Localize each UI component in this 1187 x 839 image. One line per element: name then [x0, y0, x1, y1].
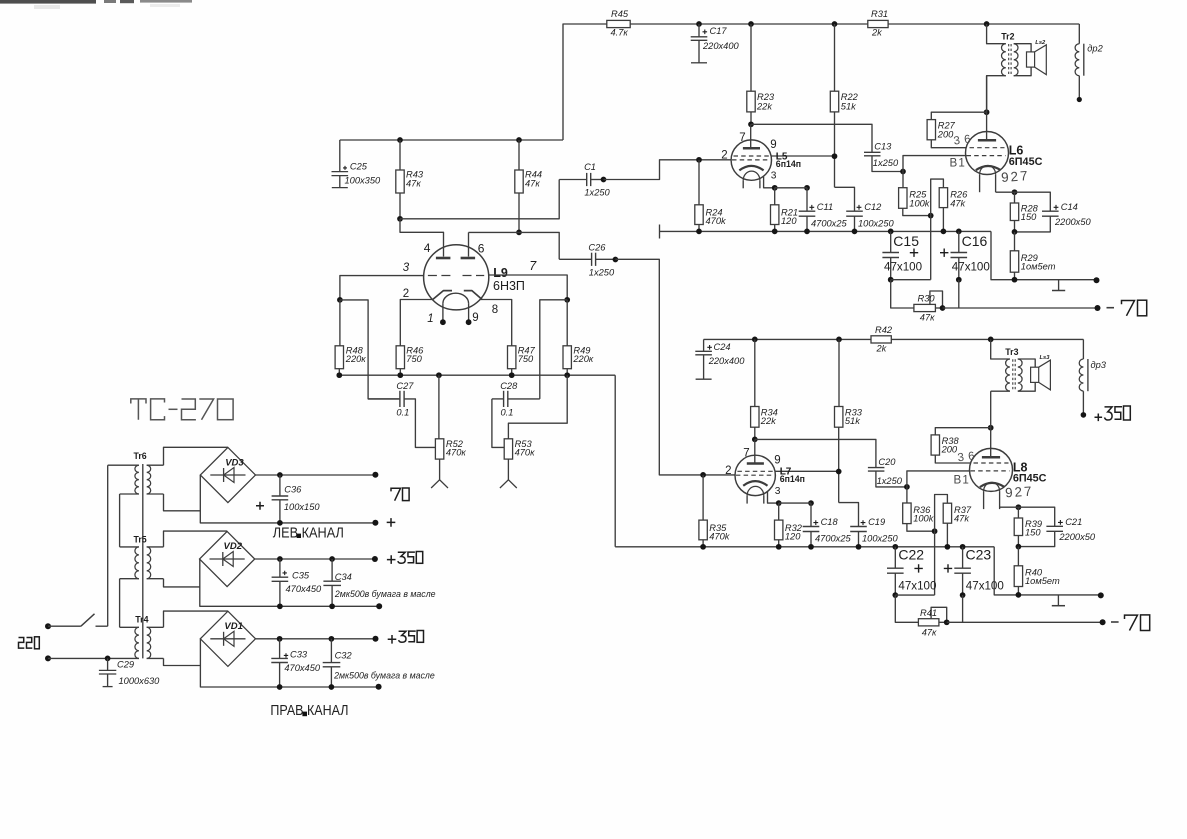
capacitor C12: [835, 187, 895, 231]
node L9 filament pin 9: [466, 319, 472, 325]
wire: +350 rail (lower channel) y=339.4: [704, 338, 1084, 340]
svg-text:Tr5: Tr5: [134, 534, 147, 544]
choke dp2: [1075, 24, 1104, 99]
svg-text:В1: В1: [954, 473, 971, 486]
svg-text:4: 4: [424, 241, 431, 255]
wire: bias node down to C15 node: [930, 216, 932, 280]
svg-text:22k: 22k: [756, 101, 773, 111]
node plus terminal (left ch): [372, 520, 378, 526]
resistor R25: [899, 172, 931, 216]
node rail/R23 junction: [748, 21, 754, 27]
label + (left ch): [387, 518, 396, 527]
wire: R37 top hook: [935, 495, 948, 532]
capacitor C29: [99, 658, 160, 686]
node C35 top: [277, 556, 283, 562]
wire: -70 line (lower): [947, 621, 1103, 623]
rectifier bridge VD3: [200, 447, 255, 502]
svg-text:C19: C19: [868, 517, 885, 527]
svg-text:220x400: 220x400: [708, 356, 746, 366]
wire: upper bus y=231.4: [660, 225, 992, 239]
node R44 bottom: [516, 230, 522, 236]
node C29 junction: [105, 656, 111, 662]
svg-text:470x450: 470x450: [284, 663, 321, 673]
svg-text:C20: C20: [878, 457, 896, 467]
resistor R34: [751, 339, 778, 439]
svg-text:C36: C36: [284, 485, 302, 495]
wire: bias node down to C22 node: [934, 531, 936, 595]
node VD2 minus terminal: [376, 603, 382, 609]
node -70 terminal (upper): [1095, 305, 1101, 311]
svg-text:C18: C18: [821, 517, 839, 527]
node C36 bottom: [277, 520, 283, 526]
wire: C15 node link to bias vertical: [891, 279, 931, 281]
node +350 terminal (VD1): [373, 636, 379, 642]
node C13/R25/grid junction: [900, 169, 906, 175]
svg-text:Tr4: Tr4: [135, 615, 148, 625]
capacitor C35: [272, 559, 322, 606]
resistor R48: [335, 300, 366, 375]
node C1 output: [601, 177, 607, 183]
ground (upper channel): [1058, 280, 1060, 291]
node R22/pin9 junction: [832, 153, 838, 159]
svg-text:470к: 470к: [446, 447, 467, 457]
svg-text:R42: R42: [875, 325, 893, 335]
rectifier bridge VD1: [200, 611, 255, 666]
svg-text:220x400: 220x400: [702, 41, 740, 51]
node R41 output: [944, 619, 950, 625]
node R39/R40/C21 junction: [1016, 544, 1022, 550]
svg-text:8: 8: [492, 304, 498, 316]
watermark remnant strip: [0, 0, 192, 9]
svg-text:150: 150: [1021, 212, 1037, 222]
svg-text:C35: C35: [292, 570, 310, 580]
capacitor C32: [323, 639, 435, 687]
wire: L8 grid jog: [907, 471, 970, 487]
node C26 output: [613, 257, 619, 263]
svg-text:47k: 47k: [950, 199, 966, 209]
node bus/R47: [509, 372, 515, 378]
node bus/R52: [436, 372, 442, 378]
node rail/Tr3 junction: [988, 337, 994, 343]
svg-text:C13: C13: [874, 141, 892, 151]
choke dp3: [1079, 339, 1107, 414]
resistor R44: [515, 140, 542, 232]
capacitor C11: [799, 188, 848, 232]
node rail/R33 junction: [836, 337, 842, 343]
wire: pin7 to R49: [489, 275, 568, 300]
wire: Tr6 sec top to VD3: [164, 447, 228, 465]
capacitor C36: [256, 475, 320, 523]
svg-text:6П45С: 6П45С: [1009, 156, 1043, 168]
tube L7 6п14п: [725, 439, 839, 503]
node bus/R26: [941, 229, 947, 235]
svg-text:100x350: 100x350: [345, 175, 382, 185]
node C15 bottom: [888, 277, 894, 283]
wire: VD2 minus rail: [200, 559, 379, 606]
node R30 output: [940, 305, 946, 311]
svg-text:ПРАВ.КАНАЛ: ПРАВ.КАНАЛ: [270, 702, 348, 719]
svg-text:47к: 47к: [406, 179, 421, 189]
node bus/R24: [696, 229, 702, 235]
svg-text:120: 120: [785, 532, 801, 542]
svg-text:100x250: 100x250: [858, 218, 895, 228]
resistor R26: [939, 188, 968, 232]
wire: VD2 plus line y=559: [255, 558, 375, 560]
node pin7/R49/C28 junction: [564, 297, 570, 303]
label +350 (VD1): [388, 631, 424, 644]
svg-text:927: 927: [1005, 483, 1034, 500]
node bus/R49: [564, 372, 570, 378]
svg-text:3 6: 3 6: [957, 449, 976, 464]
svg-text:750: 750: [406, 354, 422, 364]
capacitor C18: [803, 503, 852, 547]
svg-text:470x450: 470x450: [286, 584, 323, 594]
resistor R45: [607, 9, 630, 38]
node bus/C16: [956, 229, 962, 235]
wire: L9 cathode bus y=375.2: [339, 374, 615, 376]
resistor R41: [918, 607, 946, 637]
svg-text:R31: R31: [871, 9, 888, 19]
svg-text:7: 7: [739, 132, 745, 144]
svg-text:C16: C16: [962, 233, 988, 249]
capacitor C33: [271, 639, 321, 687]
wire: plate feed line y=140: [340, 139, 563, 141]
svg-text:3: 3: [771, 171, 777, 182]
wire: L6 grid jog: [903, 156, 966, 172]
node bus/R37: [945, 544, 951, 550]
svg-text:6п14п: 6п14п: [776, 159, 801, 169]
svg-text:9: 9: [770, 139, 776, 151]
node C22 bottom: [892, 592, 898, 598]
svg-text:100k: 100k: [913, 514, 935, 524]
wire: L7 plate to C20: [755, 439, 876, 467]
wire: C1 to L5 grid: [604, 160, 732, 180]
node bus/R32: [776, 544, 782, 550]
wire: VD3 minus rail: [200, 475, 375, 523]
node C32 bottom: [329, 684, 335, 690]
svg-text:C34: C34: [335, 572, 352, 582]
svg-text:др2: др2: [1087, 44, 1103, 54]
wire: pin6 drop: [468, 232, 470, 256]
wire: pin4 jog: [400, 219, 444, 257]
label +350 (dp3): [1095, 406, 1131, 421]
resistor R21: [771, 188, 799, 232]
capacitor C20: [868, 457, 907, 487]
svg-text:3: 3: [775, 486, 781, 497]
node R29 bottom: [1012, 277, 1018, 283]
node lower ground line end: [1098, 592, 1104, 598]
svg-text:ЛЕВ.КАНАЛ: ЛЕВ.КАНАЛ: [273, 524, 344, 541]
wire: pin3 to R48: [340, 276, 424, 300]
wire: Tr6 sec bottom to VD3: [164, 494, 201, 511]
svg-text:1x250: 1x250: [589, 267, 615, 277]
svg-text:2k: 2k: [876, 343, 888, 353]
node L7 cathode/R32: [776, 500, 782, 506]
node dp2 terminal: [1077, 97, 1082, 102]
node bus/R46: [397, 372, 403, 378]
resistor R24: [695, 160, 727, 232]
node R35 top: [700, 472, 706, 478]
wire: pin8 to R47: [480, 300, 512, 346]
capacitor C15: [882, 231, 922, 279]
node dp3 terminal / +350: [1081, 412, 1087, 418]
node Tr2/L6 plate junction: [984, 109, 990, 115]
wire: bus down to lower bus: [614, 375, 616, 547]
wire: cathode node to C18: [779, 502, 811, 504]
wire: Tr4 sec top to VD1: [164, 611, 228, 627]
resistor R32: [775, 503, 803, 547]
resistor R33: [835, 339, 863, 502]
svg-text:47к: 47к: [920, 312, 935, 322]
svg-text:0.1: 0.1: [501, 407, 514, 417]
tube L5 6п14п: [721, 124, 834, 188]
svg-text:C26: C26: [588, 243, 606, 253]
svg-text:C11: C11: [817, 202, 833, 212]
wire: upper ground line y=279.7: [991, 231, 1097, 279]
node L9 filament pin 1: [440, 319, 446, 325]
wire: pin6 line y=232.4: [469, 232, 560, 259]
resistor R49: [563, 300, 594, 375]
svg-text:200: 200: [941, 445, 958, 455]
svg-text:47x100: 47x100: [952, 260, 990, 273]
transformer Tr5: [120, 534, 164, 578]
node bus/R35: [700, 544, 706, 550]
wire: VD1 plus line y=638.8: [256, 638, 376, 640]
svg-text:9: 9: [774, 455, 780, 467]
node C33 bottom: [277, 684, 283, 690]
label -70 (lower): [1111, 615, 1150, 631]
svg-text:3: 3: [403, 262, 410, 274]
node bus/C19: [856, 544, 862, 550]
resistor R47: [508, 345, 536, 375]
svg-text:1ом5ет: 1ом5ет: [1021, 261, 1056, 271]
resistor R46: [396, 345, 424, 375]
resistor R28: [1010, 192, 1038, 232]
resistor R42: [871, 325, 893, 353]
node bus/C12: [852, 229, 858, 235]
node R24 top: [696, 157, 702, 163]
resistor R43: [396, 140, 424, 219]
svg-text:9: 9: [472, 312, 478, 324]
node bus/R48: [336, 372, 342, 378]
node R23/plate junction: [748, 121, 754, 127]
node bus/R21: [772, 229, 778, 235]
svg-text:47x100: 47x100: [898, 579, 936, 592]
svg-text:150: 150: [1025, 528, 1041, 538]
rectifier bridge VD2: [200, 531, 255, 586]
capacitor C26: [559, 243, 615, 278]
transformer Tr2: [987, 24, 1018, 112]
svg-text:R41: R41: [920, 608, 937, 618]
svg-text:1000x630: 1000x630: [119, 676, 161, 686]
node rail/R45-C17 junction: [696, 21, 702, 27]
svg-text:C29: C29: [117, 659, 134, 669]
svg-text:220к: 220к: [345, 354, 367, 364]
label 70 (VD3 out): [391, 488, 409, 501]
wire: C26 to L7 grid: [615, 259, 735, 475]
svg-text:VD2: VD2: [224, 541, 243, 552]
svg-text:C27: C27: [396, 381, 414, 391]
node upper ground line end: [1094, 277, 1100, 283]
node R43 top: [397, 137, 403, 143]
wire: L5 plate to C13: [751, 124, 872, 152]
svg-text:200: 200: [937, 130, 954, 140]
svg-text:1x250: 1x250: [584, 188, 610, 198]
svg-text:7: 7: [743, 447, 749, 459]
node VD1 minus terminal: [376, 684, 382, 690]
wire: Tr4 sec bottom to VD1: [164, 658, 201, 665]
svg-text:2мк500в бумага в масле: 2мк500в бумага в масле: [333, 670, 435, 680]
svg-text:1x250: 1x250: [873, 158, 899, 168]
tube L9 6Н3П: [403, 241, 538, 325]
resistor R39: [1014, 507, 1042, 546]
svg-text:R30: R30: [918, 294, 936, 304]
capacitor C27: [368, 381, 435, 447]
wire: pin7 node to C28: [540, 300, 567, 399]
chassis symbol below R52: [439, 459, 441, 480]
svg-text:4700x25: 4700x25: [815, 534, 852, 544]
node bus/C18: [808, 544, 814, 550]
svg-text:6п14п: 6п14п: [780, 474, 805, 484]
svg-text:1: 1: [427, 313, 433, 325]
svg-text:C21: C21: [1065, 517, 1082, 527]
resistor R23: [747, 24, 775, 124]
resistor R37: [943, 503, 972, 547]
node mains terminal bottom: [45, 655, 51, 661]
capacitor C17: [691, 24, 740, 63]
svg-text:220к: 220к: [572, 354, 594, 364]
wire: R43 bottom line y=218.8: [400, 180, 559, 219]
node C20/R36/grid junction: [904, 484, 910, 490]
wire: lower ground line y=594.9: [994, 547, 1101, 595]
svg-text:R45: R45: [611, 9, 629, 19]
svg-text:2: 2: [725, 465, 731, 477]
wire: pin3 node to C27: [340, 300, 399, 399]
transformer Tr6: [108, 451, 164, 494]
svg-text:C32: C32: [335, 651, 353, 661]
node bus/C15: [888, 229, 894, 235]
svg-text:470k: 470k: [709, 532, 731, 542]
svg-text:C28: C28: [500, 381, 518, 391]
capacitor C13: [864, 141, 903, 171]
svg-text:L9: L9: [493, 266, 508, 280]
wire: mains vertical x=107.7: [107, 465, 109, 626]
resistor R36: [903, 487, 935, 531]
svg-text:Tr3: Tr3: [1005, 347, 1018, 357]
wire: transformer core line: [142, 464, 144, 658]
node mains terminal top: [45, 623, 51, 629]
svg-text:2200x50: 2200x50: [1058, 532, 1096, 542]
svg-text:0.1: 0.1: [396, 407, 409, 417]
wire: mains bottom line: [48, 657, 139, 659]
chassis symbol below R53: [507, 459, 509, 480]
svg-text:7: 7: [529, 259, 537, 273]
svg-text:Tr2: Tr2: [1001, 32, 1014, 42]
capacitor C1: [559, 162, 610, 197]
wire: primary chain vertical x=119.6: [119, 494, 121, 627]
resistor R29: [1010, 232, 1055, 280]
svg-text:22k: 22k: [760, 416, 777, 426]
node Tr3/L8 plate junction: [988, 425, 994, 431]
resistor R52: [435, 375, 466, 459]
node C34 bottom: [329, 603, 335, 609]
svg-text:1x250: 1x250: [877, 476, 903, 486]
svg-text:47k: 47k: [954, 514, 970, 524]
node C34 top: [329, 556, 335, 562]
node C16 bottom: [956, 277, 962, 283]
node C32 top: [329, 636, 335, 642]
tube L8 6П45С: [970, 391, 1047, 509]
capacitor C25: [332, 140, 382, 188]
resistor R35: [699, 475, 731, 547]
label 220: [19, 637, 40, 649]
capacitor C21: [1018, 507, 1096, 546]
svg-text:C24: C24: [714, 342, 731, 352]
capacitor C22: [887, 547, 936, 595]
svg-text:C23: C23: [966, 547, 992, 563]
svg-text:C33: C33: [290, 649, 308, 659]
wire: lower bus y=546.8: [615, 546, 994, 548]
transformer Tr3: [991, 339, 1022, 391]
svg-text:VD1: VD1: [224, 621, 242, 632]
node C33 top: [277, 636, 283, 642]
svg-text:1ом5ет: 1ом5ет: [1025, 576, 1060, 586]
svg-text:C25: C25: [350, 161, 368, 171]
svg-text:47к: 47к: [922, 627, 937, 637]
node rail/Tr2 junction: [984, 21, 990, 27]
svg-text:2200x50: 2200x50: [1054, 217, 1092, 227]
node C18 top: [808, 500, 814, 506]
wire: R49 node to R53: [508, 375, 567, 439]
svg-text:6Н3П: 6Н3П: [493, 279, 525, 293]
svg-text:C15: C15: [893, 233, 919, 249]
node R33/pin9 junction: [836, 469, 842, 475]
svg-text:В1: В1: [950, 157, 967, 170]
svg-text:VD3: VD3: [225, 457, 244, 468]
tube L6 6П45С: [966, 76, 1043, 193]
capacitor C23: [944, 547, 1004, 595]
svg-text:C1: C1: [584, 162, 596, 172]
svg-text:2k: 2k: [871, 28, 883, 38]
svg-text:4700x25: 4700x25: [811, 218, 848, 228]
capacitor C28: [492, 381, 540, 447]
node bus/C22: [892, 544, 898, 550]
node C35 bottom: [277, 603, 283, 609]
svg-text:100x150: 100x150: [284, 502, 321, 512]
node R25/R26/bias junction: [928, 213, 934, 219]
node bus/C11: [804, 229, 810, 235]
svg-text:Ls3: Ls3: [1040, 355, 1051, 361]
svg-text:927: 927: [1001, 168, 1030, 185]
wire: -70 line (upper): [943, 307, 1098, 309]
svg-text:C12: C12: [864, 202, 882, 212]
wire: VD1 minus rail: [200, 639, 378, 687]
svg-text:Ls2: Ls2: [1035, 40, 1046, 46]
wire: +350 rail (upper channel) y=24: [563, 24, 1079, 140]
svg-text:750: 750: [518, 354, 534, 364]
wire: Tr5 sec bottom to VD2: [164, 579, 200, 587]
node R36/R37/bias junction: [932, 528, 938, 534]
switch S1: [48, 614, 108, 626]
node L5 cathode/R21: [772, 185, 778, 191]
svg-text:C14: C14: [1061, 202, 1078, 212]
node +350 terminal (VD2): [372, 556, 378, 562]
node R34/plate junction: [752, 437, 758, 443]
svg-text:6: 6: [478, 242, 485, 256]
resistor R38: [931, 428, 991, 463]
svg-text:4.7к: 4.7к: [611, 28, 629, 38]
label -70 (upper): [1107, 300, 1147, 316]
